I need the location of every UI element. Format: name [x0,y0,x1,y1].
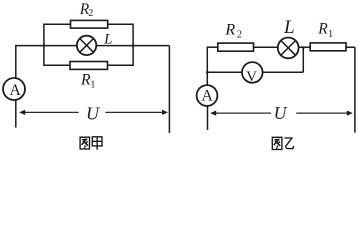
node: yi riser junction on top branch [302,46,305,49]
resistor R2 (yi) [218,43,254,51]
lamp L (jia) [77,36,96,55]
lamp L (yi) [278,38,299,59]
svg-text:2: 2 [88,8,93,19]
svg-text:1: 1 [90,79,95,90]
arrow U (jia) left half [19,110,78,115]
wire: jia R2 branch right [108,23,133,25]
wire: jia lamp branch left segment [16,45,77,47]
svg-text:R: R [317,21,328,38]
label R1 (yi) [317,21,333,41]
svg-text:1: 1 [328,29,333,40]
wire: jia R1 branch left [44,64,70,66]
resistor R1 (yi) [310,43,346,51]
wire: yi top branch seg1 [207,46,218,48]
caption 图乙 [272,137,293,149]
wire: jia lamp branch right segment [96,45,169,47]
voltmeter V (yi) [242,62,263,85]
svg-text:R: R [80,72,91,89]
wire: yi top branch seg2 [254,46,278,48]
wire: jia left outer vertical upper [15,45,17,78]
resistor R2 (jia) [71,20,108,28]
arrow U (yi) right half [296,111,353,116]
wire: jia right parallel rail [132,24,134,67]
wire: yi right rail [354,47,356,132]
svg-text:R: R [224,21,235,38]
node: jia rail-lamp junction left [43,44,46,47]
label R1 (jia) [80,72,95,91]
wire: yi voltmeter riser [302,47,304,72]
wire: yi top branch seg4 [346,46,355,48]
wire: yi voltmeter branch right [263,71,304,73]
svg-text:2: 2 [237,30,242,41]
wire: jia R1 branch right [108,64,134,66]
wire: jia right outer vertical [168,46,170,133]
ammeter A (jia) [3,78,25,100]
arrow U (jia) right half [105,110,168,115]
svg-text:L: L [283,17,295,38]
ammeter A (yi) [197,85,218,106]
wire: yi left rail lower [207,106,209,130]
arrow U (yi) left half [210,111,271,116]
svg-text:V: V [246,69,257,85]
wire: jia R2 branch left [44,23,71,25]
resistor R1 (jia) [70,62,108,70]
svg-text:A: A [201,88,213,105]
label R2 (yi) [224,21,242,40]
wire: jia left parallel rail [43,24,45,67]
svg-text:U: U [274,103,288,123]
wire: jia left outer vertical lower [15,100,17,128]
node: jia rail-lamp junction right [132,44,135,47]
svg-text:U: U [86,104,100,124]
label R2 (jia) [79,1,93,19]
node: yi voltmeter tap on left rail [206,71,209,74]
caption 图甲 [80,137,102,150]
svg-text:A: A [9,82,21,99]
wire: yi left rail upper [206,47,208,86]
wire: yi top branch seg3 [299,46,311,48]
wire: yi voltmeter branch left [207,71,242,73]
